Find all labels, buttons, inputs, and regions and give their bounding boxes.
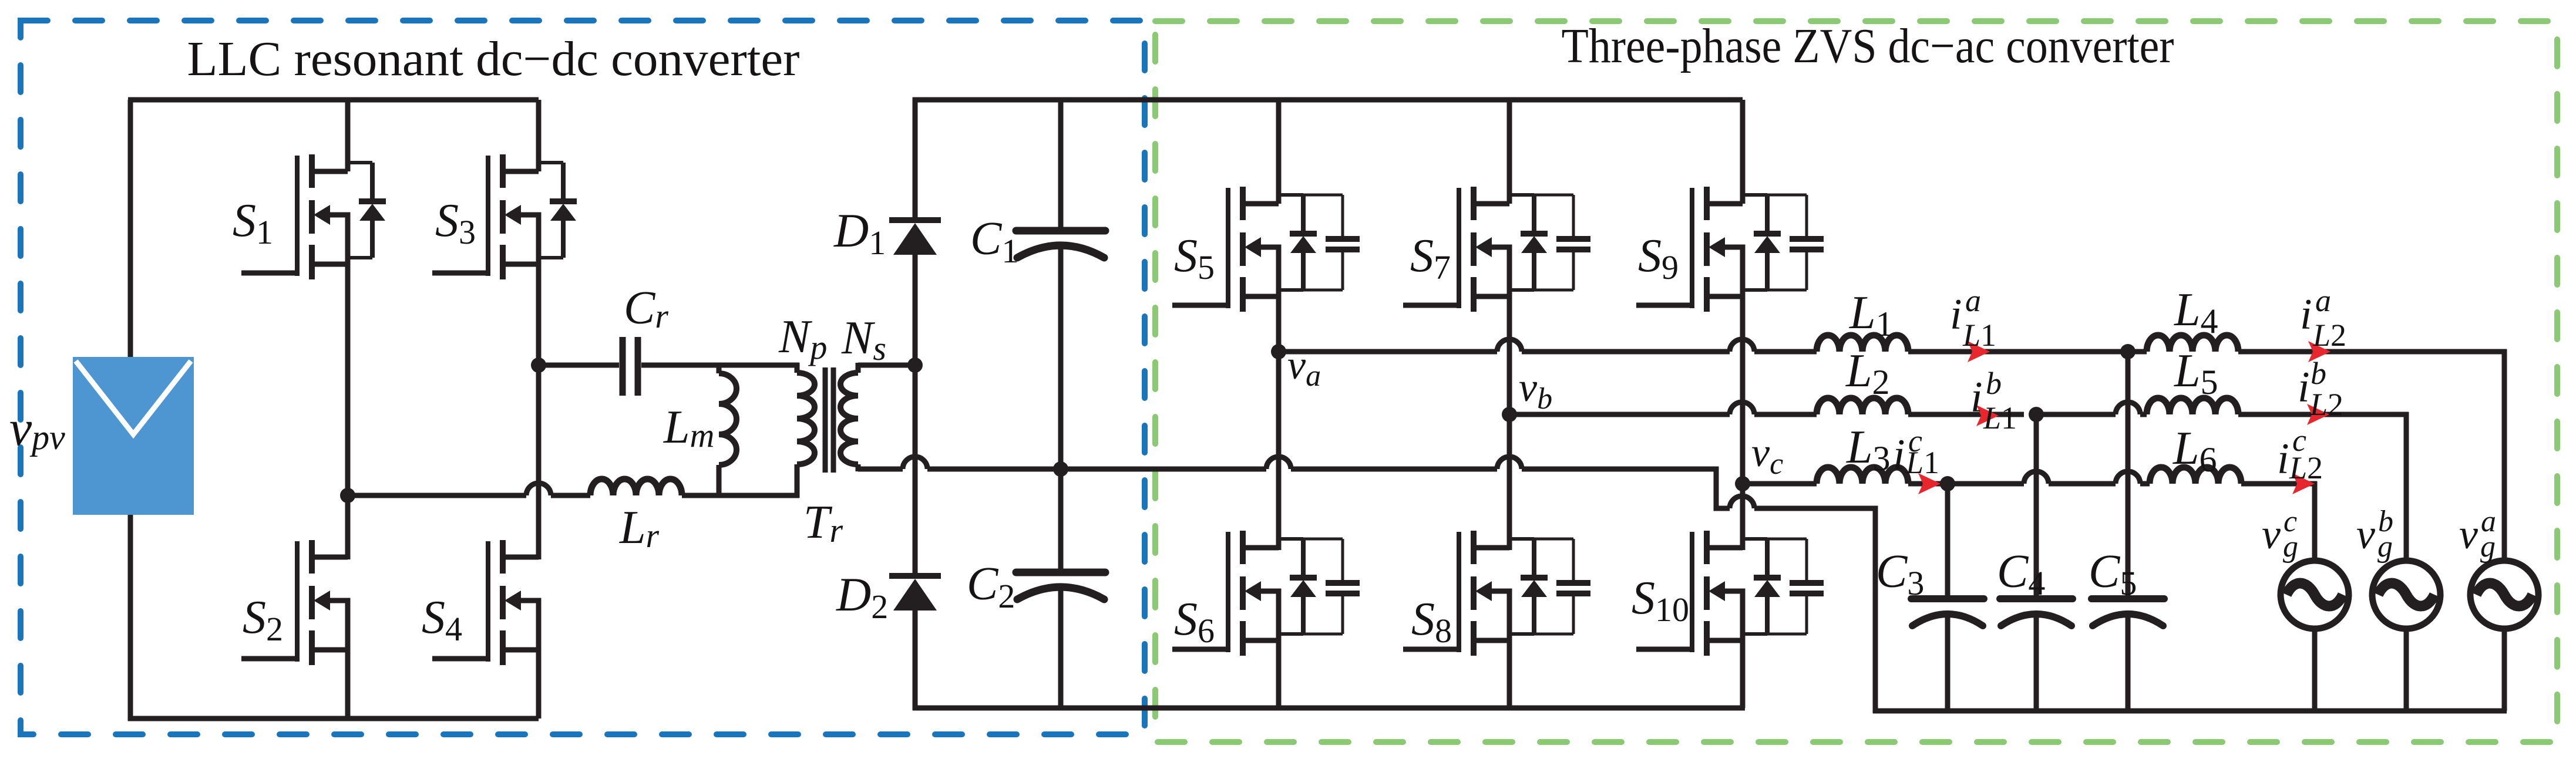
svg-text:g: g — [2377, 530, 2393, 564]
wire: node B to Cr — [539, 363, 619, 368]
mosfet S10 — [1636, 531, 1824, 656]
label i_L1^c — [1893, 423, 1939, 480]
svg-text:v: v — [2356, 511, 2375, 558]
transformer Tr primary winding Np — [797, 363, 815, 498]
node v_b junction dot — [1502, 407, 1517, 422]
wire: Lr to transformer primary bottom — [682, 493, 799, 498]
wire: C5 tap to L4 — [2128, 349, 2147, 355]
diode D1 — [889, 220, 941, 255]
wire: rectifier rail from top rail down to D1 — [913, 97, 918, 218]
wire: L6 to grid source v_g^c — [2241, 481, 2317, 559]
mosfet S1 — [241, 154, 386, 279]
svg-text:i: i — [2300, 291, 2312, 339]
junction dot: Ns top node on rectifier rail — [907, 357, 923, 373]
wire: S8 source to negative dc rail — [1507, 640, 1512, 708]
inductor Lr — [590, 479, 682, 495]
wire: ac common bottom rail — [1873, 709, 2507, 714]
wire: S3 source through node B down to S4 drain — [536, 264, 542, 559]
wire: S9 drain to dc-link top rail — [1740, 100, 1746, 204]
svg-text:b: b — [2311, 356, 2326, 391]
wire: L2 to C4 tap node — [1908, 412, 2024, 417]
node A junction dot — [340, 488, 355, 503]
wire: C2 bottom lead to negative dc rail — [1058, 585, 1064, 708]
current arrow i_L1^c — [1918, 473, 1941, 494]
svg-text:g: g — [2283, 530, 2298, 564]
capacitor C4 — [2000, 599, 2073, 626]
svg-text:g: g — [2480, 530, 2496, 564]
inductor L1 — [1817, 335, 1908, 352]
wire: phase b row from v_b to L2 with hop over S9 leg — [1509, 402, 1817, 414]
node v_c junction dot — [1735, 476, 1750, 491]
mosfet S3 — [432, 154, 577, 279]
wire: S5 drain to dc-link top rail — [1276, 100, 1282, 204]
wire: phase a row from v_a to L1 with hops over S7 and S9 legs — [1279, 339, 1817, 352]
svg-text:L1: L1 — [1962, 318, 1996, 353]
wire: S7 drain to dc-link top rail — [1507, 100, 1512, 204]
PV source v_pv (photovoltaic panel) — [73, 357, 194, 515]
wire: Ns-top node down to D2 — [913, 371, 918, 574]
label v_g^b — [2356, 505, 2393, 564]
svg-text:a: a — [2315, 283, 2331, 318]
ac source v_g^a — [2470, 561, 2538, 629]
label v_g^c — [2262, 505, 2298, 564]
svg-text:i: i — [1893, 431, 1905, 479]
wire: C4 lead down to capacitor — [2034, 414, 2039, 599]
wire: L4 to grid source v_g^a — [2238, 349, 2507, 559]
wire: C5 lead down to capacitor — [2126, 352, 2131, 599]
wire: v_g^c bottom lead — [2312, 627, 2318, 711]
wire: S1 source to node A / S2 drain leg — [345, 264, 351, 559]
mosfet S2 — [241, 540, 348, 665]
wire: C4 tap to L5 with hop over C5 lead — [2036, 402, 2147, 414]
current arrow i_L2^b — [2307, 404, 2329, 425]
transformer Tr secondary winding Ns — [840, 363, 858, 471]
mosfet S4 — [432, 540, 539, 665]
wire: midpoint wire crossing inverter legs with hops — [1266, 457, 1875, 713]
capacitor C5 — [2091, 599, 2164, 626]
wire: S5 source to node v_a and S6 drain — [1276, 296, 1282, 550]
inductor L6 — [2150, 467, 2241, 484]
svg-text:Three-phase ZVS dc−ac converte: Three-phase ZVS dc−ac converter — [1562, 19, 2174, 73]
dashed boundary box: Three-phase ZVS dc-ac converter section — [1155, 21, 2557, 742]
current arrow i_L1^a — [1968, 341, 1990, 362]
mosfet S6 — [1172, 531, 1360, 656]
wire: S3 drain to top rail — [536, 100, 542, 171]
wire: node A to Lr with crossover hop at x=917 — [348, 483, 590, 495]
wire: C5 bottom to ac common rail — [2126, 612, 2131, 711]
svg-text:L2: L2 — [2309, 387, 2343, 422]
ac source v_g^c — [2281, 561, 2349, 629]
wire: LLC bottom rail — [128, 716, 539, 721]
svg-text:v: v — [2262, 511, 2281, 558]
svg-text:L2: L2 — [2312, 318, 2346, 353]
svg-text:L2: L2 — [2289, 450, 2323, 485]
junction dot: C4 tap on phase b — [2029, 407, 2044, 422]
wire: negative dc rail (secondary side) — [913, 706, 1745, 711]
svg-text:i: i — [1970, 373, 1983, 421]
capacitor Cr — [623, 337, 638, 396]
node v_a junction dot — [1271, 344, 1286, 359]
wire: Ns top to rectifier midpoint node — [858, 363, 915, 368]
inductor L4 — [2147, 335, 2238, 352]
wire: L5 to grid source v_g^b — [2238, 412, 2409, 559]
ac source v_g^b — [2372, 561, 2440, 629]
svg-text:v: v — [2459, 511, 2478, 558]
capacitor C2 — [1016, 572, 1105, 599]
label i_L2^b — [2298, 356, 2343, 422]
svg-text:L1: L1 — [1905, 445, 1939, 480]
wire: PV negative lead down to bottom rail — [128, 515, 133, 721]
wire: S7 source to node v_b and S8 drain — [1507, 296, 1512, 550]
wire: phase c row from v_c to L3 — [1743, 481, 1817, 487]
wire: Cr to transformer primary top — [641, 363, 799, 368]
inductor L2 — [1817, 398, 1908, 414]
wire: S4 source to bottom rail — [536, 650, 542, 719]
capacitor C3 — [1911, 599, 1984, 626]
mosfet S8 — [1403, 531, 1590, 656]
wire: v_g^a bottom lead — [2502, 627, 2507, 711]
wire: PV positive lead up to top rail — [128, 100, 133, 357]
mosfet S7 — [1403, 187, 1590, 312]
wire: dc-link top rail — [913, 97, 1743, 103]
wire: S2 source to bottom rail — [345, 650, 351, 719]
label i_L2^c — [2277, 423, 2323, 485]
mosfet S9 — [1636, 187, 1824, 312]
svg-text:i: i — [1950, 291, 1962, 339]
svg-text:L1: L1 — [1983, 400, 2017, 436]
wire: LLC top rail — [128, 97, 539, 103]
svg-text:LLC resonant dc−dc converter: LLC resonant dc−dc converter — [187, 32, 800, 86]
label i_L1^b — [1970, 366, 2017, 436]
wire: S9 source to node v_c and S10 drain — [1740, 296, 1746, 550]
junction dot: C1/C2 midpoint tap — [1053, 461, 1068, 477]
svg-text:a: a — [1965, 283, 1981, 318]
svg-text:i: i — [2298, 363, 2310, 412]
label i_L2^a — [2300, 283, 2346, 353]
wire: v_g^b bottom lead — [2404, 627, 2409, 711]
transformer Tr core — [825, 367, 833, 473]
wire: L1 to C5 tap node — [1908, 349, 2128, 355]
wire: D1 anode down to Ns-top node — [913, 255, 918, 359]
wire: C3 tap to L6 with hops over C4 and C5 leads — [1948, 471, 2150, 484]
label v_g^a — [2459, 505, 2496, 564]
node B junction dot — [531, 357, 546, 373]
inductor Lm (magnetizing, vertical) — [719, 365, 737, 496]
diode D2 — [889, 576, 941, 611]
wire: C4 bottom to ac common rail — [2034, 612, 2039, 711]
wire: C3 bottom to ac common rail — [1945, 612, 1951, 711]
current arrow i_L1^b — [1976, 405, 1999, 426]
mosfet S5 — [1172, 187, 1360, 312]
label i_L1^a — [1950, 283, 1996, 353]
wire: Ns bottom to C1/C2 midpoint with hop over rectifier rail — [858, 457, 1266, 469]
svg-text:b: b — [1986, 366, 2002, 401]
capacitor C1 — [1016, 231, 1105, 258]
junction dot: C5 tap on phase a — [2120, 344, 2136, 359]
wire: D2 anode down to negative dc rail — [913, 611, 918, 710]
wire: L3 to C3 tap node — [1908, 481, 1948, 487]
wire: S1 drain to top rail — [345, 100, 351, 171]
wire: S6 source to negative dc rail — [1276, 640, 1282, 708]
current arrow i_L2^c — [2292, 473, 2315, 494]
inductor L3 — [1817, 467, 1908, 484]
wire: C1 top lead from top rail — [1058, 100, 1064, 231]
dashed boundary box: LLC resonant dc-dc converter section — [21, 21, 1145, 734]
junction dot: C3 tap on phase c — [1940, 476, 1955, 491]
wire: C1/C2 series link — [1058, 243, 1064, 572]
wire: S10 source to negative dc rail — [1740, 640, 1746, 708]
svg-text:i: i — [2277, 435, 2289, 483]
current arrow i_L2^a — [2308, 341, 2330, 362]
wire: C3 lead down to capacitor — [1945, 484, 1951, 599]
inductor L5 — [2147, 398, 2238, 414]
